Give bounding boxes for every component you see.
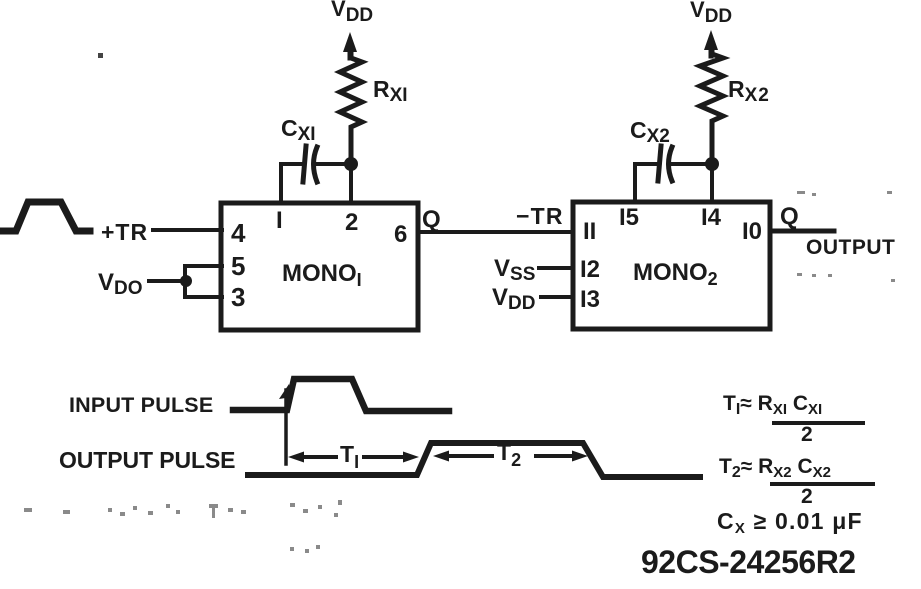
wire MONO2 Q output <box>770 229 834 234</box>
svg-text:VDD: VDD <box>492 284 535 314</box>
svg-text:CX ≥ 0.01 μF: CX ≥ 0.01 μF <box>717 508 863 537</box>
capacitor CX2 <box>635 162 656 166</box>
T1 dimension arrows <box>288 452 304 463</box>
op-amp MONO2 box <box>573 202 770 329</box>
wire pin14 vertical to junction <box>710 164 714 202</box>
svg-text:2: 2 <box>345 209 358 236</box>
svg-text:4: 4 <box>231 218 246 248</box>
svg-text:VSS: VSS <box>494 255 535 285</box>
svg-text:I4: I4 <box>701 204 722 231</box>
svg-text:OUTPUT: OUTPUT <box>806 236 895 259</box>
svg-text:I5: I5 <box>619 204 639 231</box>
wire input trigger waveform <box>0 202 90 231</box>
wire to pin 3 <box>185 295 222 299</box>
power VDD arrow (left) <box>348 46 353 58</box>
svg-text:Q: Q <box>780 203 799 230</box>
svg-text:Q: Q <box>422 206 441 233</box>
svg-text:2: 2 <box>801 485 813 508</box>
wire to pin 5 <box>185 264 222 268</box>
svg-text:−TR: −TR <box>516 203 564 229</box>
svg-text:MONO2: MONO2 <box>633 259 718 289</box>
wire VDD bracket vertical <box>183 266 187 297</box>
svg-text:CX2: CX2 <box>630 117 670 147</box>
op-amp MONO1 box <box>221 203 418 330</box>
resistor RX1 <box>340 51 362 157</box>
wire VDD to pin 13 <box>541 295 573 299</box>
junction dot resistor/cap node <box>344 157 358 171</box>
svg-text:I0: I0 <box>742 218 762 245</box>
svg-text:2: 2 <box>801 423 813 446</box>
svg-text:T2≈ RX2 CX2: T2≈ RX2 CX2 <box>719 455 831 481</box>
svg-text:OUTPUT PULSE: OUTPUT PULSE <box>59 447 235 473</box>
svg-text:I2: I2 <box>580 256 600 283</box>
svg-text:MONOI: MONOI <box>282 260 362 290</box>
svg-text:+TR: +TR <box>101 219 148 245</box>
wire input pulse waveform <box>233 379 449 411</box>
wire pin1 vertical to capacitor <box>279 164 283 203</box>
svg-text:6: 6 <box>394 221 407 248</box>
svg-text:RXI: RXI <box>373 76 408 106</box>
svg-text:INPUT PULSE: INPUT PULSE <box>69 393 213 417</box>
svg-text:VDD: VDD <box>331 0 373 26</box>
svg-text:VDO: VDO <box>98 269 143 299</box>
capacitor CX1 <box>281 162 303 166</box>
wire +TR to pin 4 of MONO1 <box>153 228 222 232</box>
svg-text:I3: I3 <box>580 286 600 313</box>
svg-text:TI: TI <box>340 441 359 472</box>
junction dot VDD feed <box>180 275 192 287</box>
resistor RX2 <box>700 50 723 157</box>
svg-text:CXI: CXI <box>281 115 316 145</box>
wire VDD feed <box>149 279 185 283</box>
wire MONO1 Q to MONO2 -TR <box>418 230 573 234</box>
junction dot resistor/cap node 2 <box>705 157 719 171</box>
svg-text:VDD: VDD <box>690 0 732 27</box>
svg-text:II: II <box>583 218 596 245</box>
svg-text:5: 5 <box>231 251 245 281</box>
wire T1 reference vertical line <box>284 390 288 464</box>
svg-text:92CS-24256R2: 92CS-24256R2 <box>641 544 856 580</box>
wire output pulse waveform <box>248 443 700 477</box>
wire pin2 vertical to junction <box>349 164 353 203</box>
svg-text:3: 3 <box>231 282 245 312</box>
wire VSS to pin 12 <box>539 266 573 270</box>
wire pin15 vertical to capacitor <box>633 164 637 202</box>
svg-text:I: I <box>276 207 283 234</box>
svg-text:RX2: RX2 <box>728 76 770 106</box>
power VDD arrow (right) <box>709 44 714 56</box>
svg-text:TI≈ RXI CXI: TI≈ RXI CXI <box>723 392 822 418</box>
T2 dimension arrows <box>433 451 449 462</box>
